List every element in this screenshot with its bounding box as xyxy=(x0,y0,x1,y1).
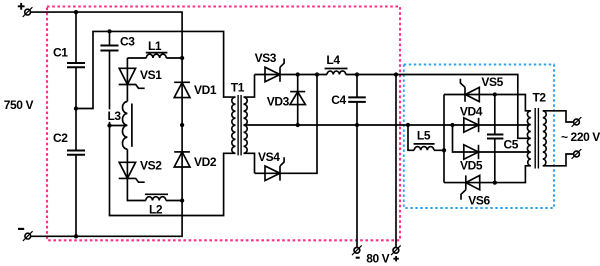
transformer T2 secondary winding xyxy=(533,90,547,166)
wire: VS5 row to T2 primary top xyxy=(444,95,531,111)
transformer T1 core xyxy=(238,95,241,155)
wire: VS6 row to T2 primary bottom xyxy=(444,166,531,183)
svg-text:VS3: VS3 xyxy=(255,51,277,65)
node: L3 tap xyxy=(107,123,111,127)
svg-text:~ 220 V: ~ 220 V xyxy=(561,130,600,144)
wire: inverter left rail xyxy=(443,95,445,183)
node: C4 top xyxy=(355,72,359,76)
transformer T1 primary winding xyxy=(232,97,236,153)
svg-text:L5: L5 xyxy=(417,129,431,143)
svg-text:VS5: VS5 xyxy=(481,75,503,89)
wire: L3 centre tap xyxy=(110,125,127,127)
node: VD3 bottom xyxy=(296,123,300,127)
svg-text:VD2: VD2 xyxy=(194,155,217,169)
diode VD2 xyxy=(174,152,217,169)
pink dashed enclosure (input converter) xyxy=(47,7,400,241)
svg-text:T2: T2 xyxy=(533,90,547,104)
svg-text:C4: C4 xyxy=(331,93,346,107)
wire: top rail from + terminal, right leg down, bottom rail back to - terminal xyxy=(30,12,182,236)
terminal ~220V upper xyxy=(572,117,582,127)
inductor L3 (tapped, with core) xyxy=(106,102,132,150)
svg-text:L4: L4 xyxy=(326,53,340,67)
svg-text:C5: C5 xyxy=(504,137,519,151)
node: L2 right xyxy=(180,198,184,202)
capacitor C2 xyxy=(53,131,85,155)
terminal + (750V plus) xyxy=(18,3,33,17)
transformer T1 secondary winding xyxy=(231,81,247,154)
diode VD1 xyxy=(174,82,217,97)
node: VD1/VD2 midpoint xyxy=(180,123,184,127)
node: L5 tap on centre line xyxy=(406,123,410,127)
inductor L5 xyxy=(414,129,435,151)
node: VD3 top xyxy=(296,72,300,76)
node: C5 top on VS5 row xyxy=(493,92,497,96)
thyristor VS2 xyxy=(119,159,163,183)
svg-text:T1: T1 xyxy=(231,81,245,95)
transformer T2 primary winding xyxy=(527,111,530,166)
wire: VS3 output top node line to T2 centre tap feed xyxy=(255,75,529,139)
node: C4 bottom on centre line xyxy=(355,123,359,127)
wire: VD4/VD5 common node drop and VD5 row xyxy=(453,125,529,152)
label 750 V xyxy=(4,98,34,112)
svg-text:VD4: VD4 xyxy=(460,104,483,118)
wire: T1 secondary bottom stub down to VS4 row xyxy=(244,153,255,173)
node: C5 bottom on VS6 row xyxy=(493,180,497,184)
wire: L5 drop from centre line xyxy=(408,125,444,150)
wire: T2 secondary top stub to output terminal xyxy=(543,111,574,122)
svg-text:L1: L1 xyxy=(148,39,162,53)
svg-text:VD1: VD1 xyxy=(194,83,217,97)
blue dashed enclosure (output inverter) xyxy=(404,65,554,209)
wire: T1 secondary top stub to VS3 row xyxy=(244,75,255,98)
svg-text:80 V: 80 V xyxy=(366,252,389,266)
thyristor VS1 xyxy=(119,68,163,88)
wire: T2 secondary bottom stub to output terminal xyxy=(543,154,574,166)
svg-text:VS4: VS4 xyxy=(258,150,280,164)
terminal +80V xyxy=(391,245,401,261)
svg-text:C1: C1 xyxy=(53,45,68,59)
capacitor C4 xyxy=(331,75,366,248)
wire: capacitor midpoint tap up to top bus, across to T1 primary top xyxy=(76,31,236,108)
svg-text:VS6: VS6 xyxy=(468,194,490,208)
thyristor VS5 xyxy=(460,75,503,102)
wire: C3 leg down, bottom bus to T1 primary bottom xyxy=(110,31,236,215)
node: +80V tap on top line xyxy=(394,72,398,76)
node: bottom bus / C2 tap xyxy=(74,234,78,238)
svg-text:750 V: 750 V xyxy=(4,98,34,112)
node: VD4/VD5 on centre line xyxy=(450,123,454,127)
diode VD5 xyxy=(460,145,483,173)
inductor L1 xyxy=(146,39,168,58)
capacitor C5 xyxy=(487,95,519,183)
wire: L1 row xyxy=(127,57,182,59)
inductor L2 xyxy=(145,194,168,216)
label 80 V xyxy=(366,252,389,266)
wire: VS4 row right, up to top node xyxy=(255,75,318,174)
node: C3 top on mid bus xyxy=(107,29,111,33)
wire: +80V lead down to terminal xyxy=(395,75,397,248)
svg-text:C3: C3 xyxy=(120,34,135,48)
thyristor VS3 xyxy=(255,51,285,82)
diode VD3 xyxy=(267,75,306,126)
capacitor C1 xyxy=(53,45,85,67)
wire: VS1-L3-VS2 chain verticals and L2 run xyxy=(127,58,182,201)
svg-text:VD5: VD5 xyxy=(460,158,483,172)
node: capacitor midpoint xyxy=(74,106,78,110)
node: top bus / C1 tap xyxy=(74,10,78,14)
wire: C1/C2 capacitor leg segments xyxy=(75,12,77,236)
svg-text:VD3: VD3 xyxy=(267,95,290,109)
node: L1 right xyxy=(180,56,184,60)
svg-text:L3: L3 xyxy=(108,109,122,123)
svg-text:C2: C2 xyxy=(53,131,68,145)
terminal -80V xyxy=(352,245,362,257)
diode VD4 xyxy=(460,104,483,132)
inductor L4 xyxy=(325,53,348,74)
capacitor C3 xyxy=(100,34,135,50)
label ~ 220 V xyxy=(561,130,600,144)
node: VS4 return on top line xyxy=(315,72,319,76)
svg-text:VS2: VS2 xyxy=(140,159,162,173)
svg-text:L2: L2 xyxy=(149,202,163,216)
wire: centre (minus) line from T1 secondary tap to T2 tap xyxy=(244,124,529,126)
terminal ~220V lower xyxy=(572,149,582,159)
transformer T2 core xyxy=(535,108,538,169)
thyristor VS4 xyxy=(258,150,284,180)
node: L5 to rail xyxy=(442,148,446,152)
thyristor VS6 xyxy=(461,175,491,207)
svg-text:VS1: VS1 xyxy=(140,68,162,82)
terminal - (750V minus) xyxy=(18,229,33,241)
